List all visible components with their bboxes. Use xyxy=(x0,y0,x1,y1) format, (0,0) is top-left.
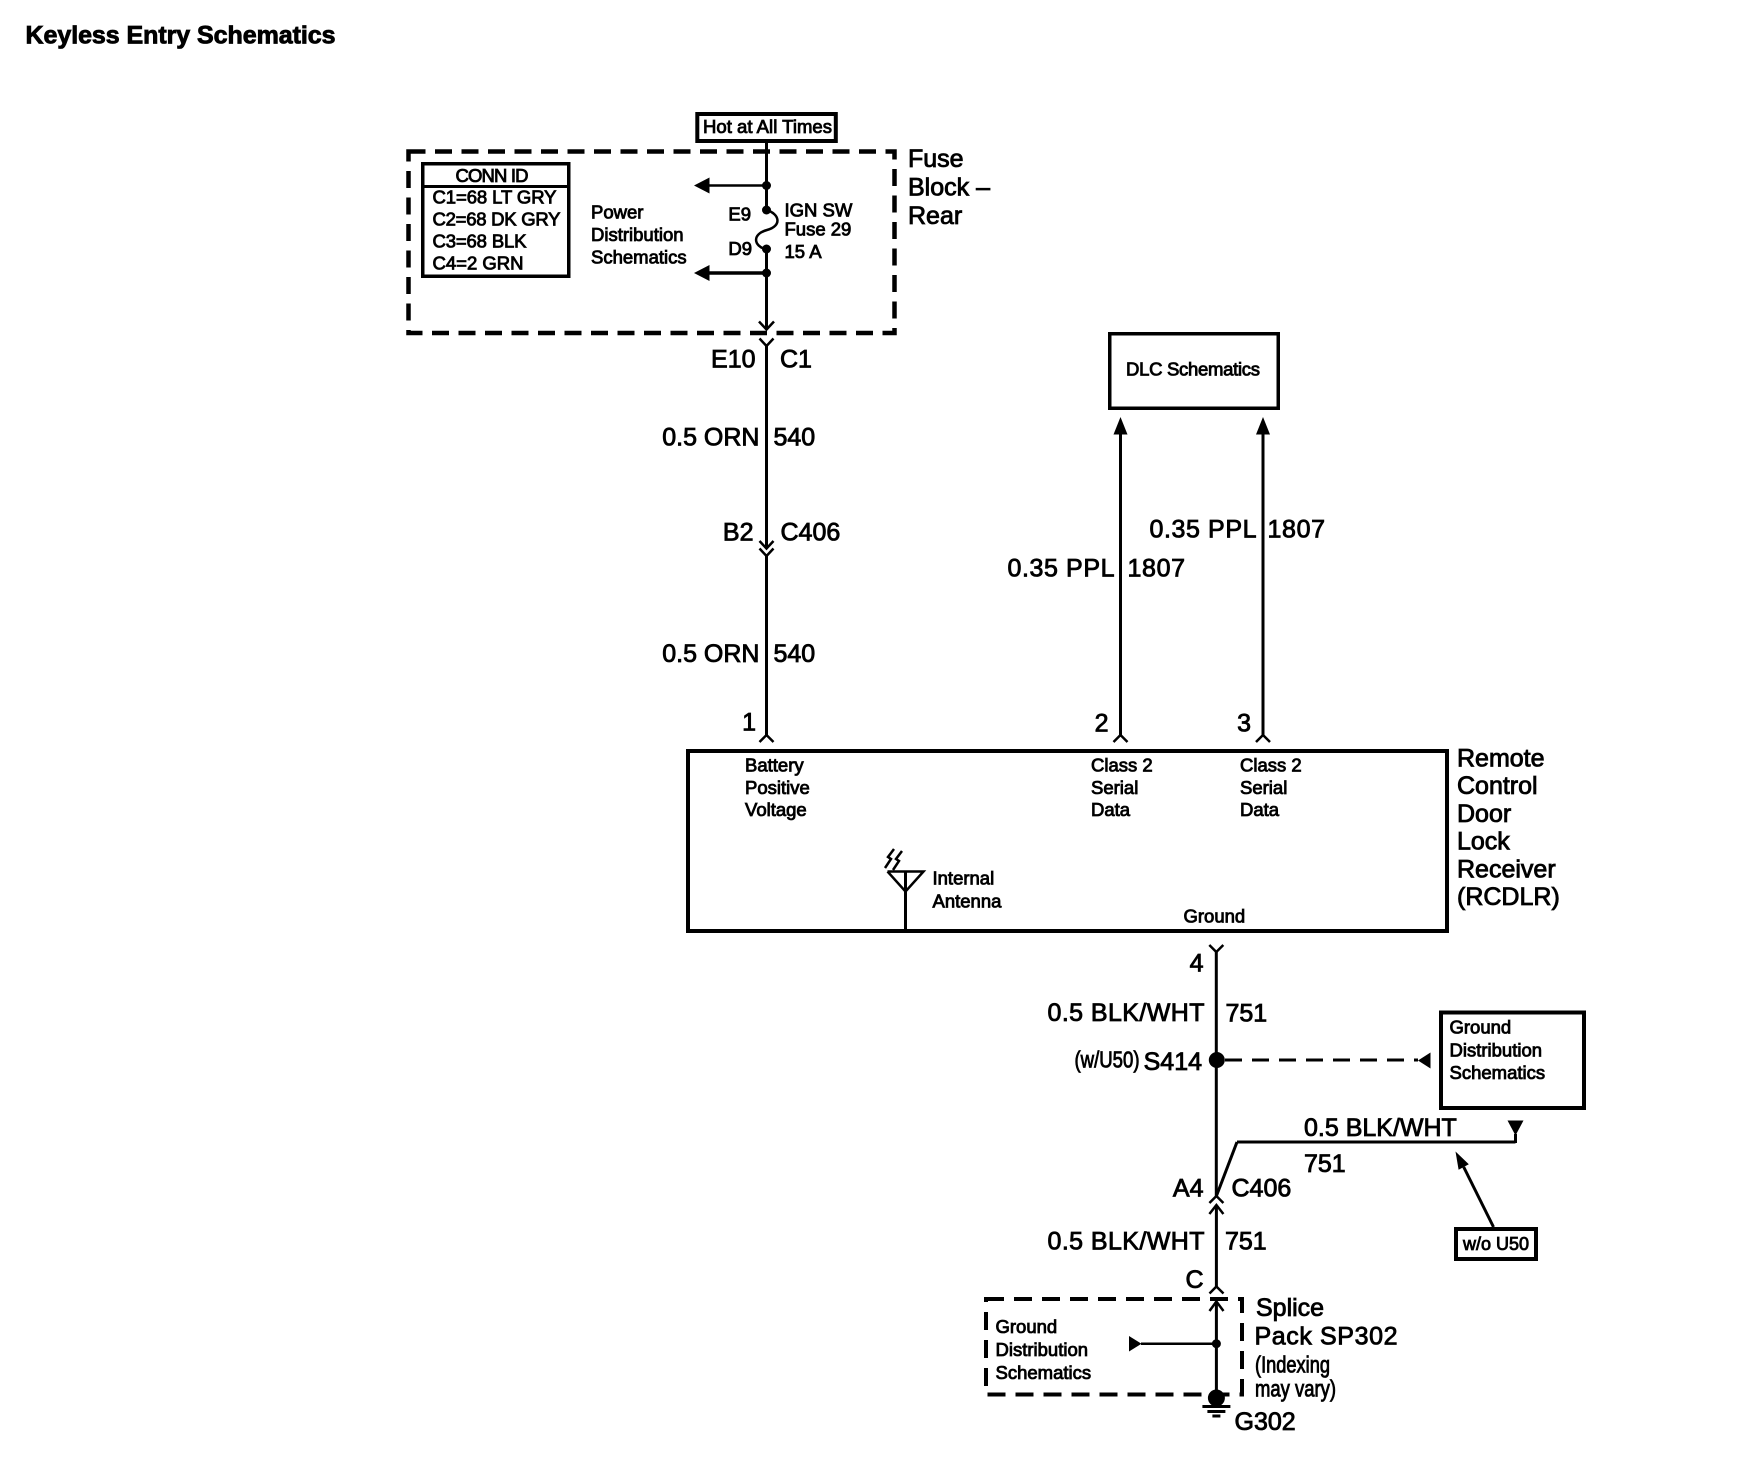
svg-text:Remote: Remote xyxy=(1457,745,1545,773)
svg-text:Schematics: Schematics xyxy=(591,247,687,268)
svg-text:Distribution: Distribution xyxy=(996,1339,1089,1360)
svg-text:Splice: Splice xyxy=(1256,1294,1324,1322)
svg-text:Fuse: Fuse xyxy=(908,145,964,173)
svg-text:Pack SP302: Pack SP302 xyxy=(1255,1322,1398,1350)
svg-text:Power: Power xyxy=(591,202,643,223)
svg-text:0.35 PPL: 0.35 PPL xyxy=(1150,516,1257,544)
svg-text:751: 751 xyxy=(1225,1228,1267,1256)
svg-text:C1=68 LT GRY: C1=68 LT GRY xyxy=(433,187,557,208)
svg-text:540: 540 xyxy=(774,424,816,452)
svg-text:Internal: Internal xyxy=(933,868,995,889)
svg-text:0.5 ORN: 0.5 ORN xyxy=(662,640,759,668)
svg-text:Ground: Ground xyxy=(1450,1017,1512,1038)
svg-text:540: 540 xyxy=(774,640,816,668)
svg-text:Receiver: Receiver xyxy=(1457,855,1556,883)
svg-text:2: 2 xyxy=(1095,710,1109,738)
svg-text:Positive: Positive xyxy=(745,777,810,798)
svg-text:0.5 BLK/WHT: 0.5 BLK/WHT xyxy=(1048,999,1205,1027)
svg-text:Ground: Ground xyxy=(1184,906,1246,927)
svg-text:(Indexing: (Indexing xyxy=(1255,1352,1330,1378)
svg-text:Data: Data xyxy=(1240,799,1280,820)
svg-text:B2: B2 xyxy=(723,519,754,547)
svg-text:Serial: Serial xyxy=(1240,777,1287,798)
svg-text:Data: Data xyxy=(1091,799,1131,820)
svg-text:(RCDLR): (RCDLR) xyxy=(1457,883,1560,911)
svg-text:C406: C406 xyxy=(781,519,841,547)
svg-text:Door: Door xyxy=(1457,800,1511,828)
svg-text:1807: 1807 xyxy=(1268,516,1326,544)
svg-text:A4: A4 xyxy=(1173,1175,1204,1203)
svg-text:751: 751 xyxy=(1304,1150,1346,1178)
svg-text:0.5 ORN: 0.5 ORN xyxy=(662,424,759,452)
svg-text:C1: C1 xyxy=(780,346,812,374)
svg-text:E9: E9 xyxy=(728,204,751,225)
svg-text:Lock: Lock xyxy=(1457,828,1510,856)
svg-text:Voltage: Voltage xyxy=(745,799,807,820)
svg-text:w/o U50: w/o U50 xyxy=(1462,1233,1529,1254)
svg-text:Fuse 29: Fuse 29 xyxy=(785,219,852,240)
svg-text:0.5 BLK/WHT: 0.5 BLK/WHT xyxy=(1048,1228,1205,1256)
svg-text:Control: Control xyxy=(1457,772,1538,800)
svg-text:DLC Schematics: DLC Schematics xyxy=(1126,359,1260,380)
svg-text:C4=2 GRN: C4=2 GRN xyxy=(433,253,524,274)
svg-text:Distribution: Distribution xyxy=(591,224,684,245)
svg-text:C3=68 BLK: C3=68 BLK xyxy=(433,231,528,252)
svg-text:1: 1 xyxy=(742,709,756,737)
svg-text:Hot at All Times: Hot at All Times xyxy=(703,116,832,137)
svg-text:CONN ID: CONN ID xyxy=(456,165,529,186)
svg-text:Rear: Rear xyxy=(908,202,962,230)
svg-text:Battery: Battery xyxy=(745,755,804,776)
svg-text:1807: 1807 xyxy=(1128,555,1186,583)
svg-text:C: C xyxy=(1185,1266,1203,1294)
svg-text:0.35 PPL: 0.35 PPL xyxy=(1008,555,1115,583)
svg-text:Schematics: Schematics xyxy=(996,1362,1092,1383)
svg-text:Class 2: Class 2 xyxy=(1240,755,1302,776)
svg-text:15 A: 15 A xyxy=(785,241,823,262)
svg-text:Distribution: Distribution xyxy=(1450,1039,1543,1060)
svg-text:S414: S414 xyxy=(1144,1048,1202,1076)
svg-text:Serial: Serial xyxy=(1091,777,1138,798)
svg-text:E10: E10 xyxy=(711,346,755,374)
svg-text:C2=68 DK GRY: C2=68 DK GRY xyxy=(433,209,561,230)
svg-text:4: 4 xyxy=(1190,950,1204,978)
svg-text:3: 3 xyxy=(1237,710,1251,738)
svg-text:may vary): may vary) xyxy=(1255,1376,1336,1402)
svg-text:751: 751 xyxy=(1226,1000,1268,1028)
svg-text:Keyless Entry Schematics: Keyless Entry Schematics xyxy=(26,22,336,50)
svg-text:0.5 BLK/WHT: 0.5 BLK/WHT xyxy=(1304,1114,1457,1142)
svg-text:(w/U50): (w/U50) xyxy=(1075,1047,1140,1073)
svg-text:Antenna: Antenna xyxy=(933,891,1003,912)
svg-text:Block –: Block – xyxy=(908,174,990,202)
svg-text:Ground: Ground xyxy=(996,1316,1058,1337)
svg-text:C406: C406 xyxy=(1232,1175,1292,1203)
svg-text:Schematics: Schematics xyxy=(1450,1062,1546,1083)
svg-text:D9: D9 xyxy=(728,238,752,259)
svg-text:Class 2: Class 2 xyxy=(1091,755,1153,776)
svg-text:G302: G302 xyxy=(1235,1408,1296,1436)
svg-text:IGN SW: IGN SW xyxy=(785,200,853,221)
